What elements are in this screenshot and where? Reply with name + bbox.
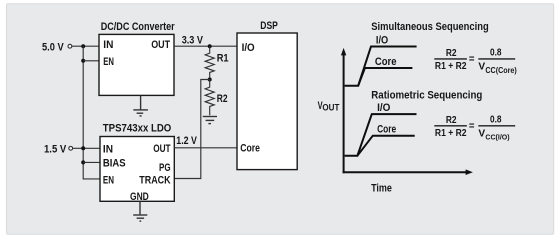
svg-text:I/O: I/O bbox=[242, 42, 255, 54]
svg-text:R1 + R2: R1 + R2 bbox=[435, 127, 467, 139]
svg-text:Core: Core bbox=[375, 56, 397, 68]
junction 3.3V / R1 bbox=[208, 44, 212, 48]
LDO U2 TPS743xx box bbox=[100, 137, 174, 202]
svg-text:DC/DC Converter: DC/DC Converter bbox=[101, 21, 176, 33]
junction R1/R2 divider tap bbox=[208, 78, 212, 82]
junction 1.5V rail bbox=[81, 146, 85, 150]
svg-text:0.8: 0.8 bbox=[490, 46, 502, 58]
ground below LDO bbox=[133, 201, 147, 221]
svg-text:BIAS: BIAS bbox=[103, 157, 126, 169]
svg-text:0.8: 0.8 bbox=[490, 113, 502, 125]
svg-text:EN: EN bbox=[103, 174, 114, 186]
svg-text:DSP: DSP bbox=[260, 20, 278, 32]
wire 5.0V to DC/DC IN bbox=[72, 45, 99, 47]
svg-text:TRACK: TRACK bbox=[139, 175, 170, 187]
svg-text:5.0 V: 5.0 V bbox=[42, 42, 64, 54]
graph axes: VOUT vs Time bbox=[318, 48, 473, 194]
junction BIAS bbox=[81, 160, 85, 164]
svg-text:R2: R2 bbox=[217, 93, 228, 105]
resistor R1 bbox=[205, 46, 214, 79]
wire divider tap to TRACK bbox=[174, 80, 209, 179]
svg-text:CC(Core): CC(Core) bbox=[485, 66, 517, 75]
svg-text:I/O: I/O bbox=[377, 102, 391, 114]
svg-text:1.2 V: 1.2 V bbox=[176, 135, 197, 147]
svg-text:EN: EN bbox=[103, 56, 114, 68]
equation 2: R2/(R1+R2) = 0.8/VCC(I/O) bbox=[434, 113, 515, 141]
DC/DC converter U1 box bbox=[99, 34, 174, 95]
wire 1.5V to LDO IN bbox=[73, 147, 100, 149]
y-axis bbox=[343, 54, 345, 174]
svg-text:R1 + R2: R1 + R2 bbox=[435, 60, 467, 72]
svg-text:IN: IN bbox=[103, 143, 113, 155]
svg-text:V: V bbox=[478, 61, 485, 73]
junction 5.0V/IN bbox=[81, 44, 85, 48]
ground below R2 bbox=[203, 117, 217, 124]
svg-text:R2: R2 bbox=[446, 114, 457, 126]
curve simultaneous I/O bbox=[345, 47, 417, 86]
svg-text:Time: Time bbox=[371, 182, 392, 194]
curve ratiometric I/O bbox=[345, 114, 417, 156]
svg-text:PG: PG bbox=[159, 162, 171, 174]
wire OUT 3.3V to DSP I/O bbox=[174, 45, 237, 47]
junction EN DC/DC bbox=[81, 59, 85, 63]
resistor R2 bbox=[205, 80, 214, 116]
svg-text:Simultaneous Sequencing: Simultaneous Sequencing bbox=[371, 21, 489, 33]
svg-text:V: V bbox=[478, 128, 485, 140]
x-axis bbox=[343, 171, 467, 173]
svg-text:IN: IN bbox=[103, 39, 113, 51]
wire to DC/DC EN bbox=[83, 60, 99, 62]
svg-text:3.3 V: 3.3 V bbox=[182, 35, 204, 47]
wire to LDO BIAS bbox=[83, 161, 100, 163]
node 1.5V input terminal bbox=[44, 144, 73, 156]
svg-text:=: = bbox=[469, 120, 475, 132]
DSP box bbox=[237, 33, 297, 170]
svg-text:Ratiometric Sequencing: Ratiometric Sequencing bbox=[371, 90, 482, 102]
svg-text:1.5 V: 1.5 V bbox=[44, 144, 67, 156]
ground below DC/DC bbox=[133, 95, 148, 116]
svg-text:OUT: OUT bbox=[322, 102, 339, 113]
svg-text:OUT: OUT bbox=[153, 143, 171, 155]
svg-text:Core: Core bbox=[377, 123, 396, 135]
wire LDO OUT 1.2V to DSP Core bbox=[174, 147, 237, 149]
svg-text:Core: Core bbox=[240, 143, 260, 155]
svg-text:R2: R2 bbox=[446, 47, 457, 59]
curve ratiometric Core bbox=[357, 136, 414, 156]
svg-text:R1: R1 bbox=[217, 53, 229, 65]
svg-text:TPS743xx LDO: TPS743xx LDO bbox=[103, 123, 172, 135]
svg-text:CC(I/O): CC(I/O) bbox=[485, 133, 510, 142]
svg-text:I/O: I/O bbox=[376, 34, 389, 46]
equation 1: R2/(R1+R2) = 0.8/VCC(Core) bbox=[434, 46, 517, 74]
svg-text:OUT: OUT bbox=[151, 39, 170, 51]
node 5.0V input terminal bbox=[42, 42, 72, 54]
curve simultaneous Core bbox=[358, 68, 412, 86]
wire vertical 5.0V rail down to LDO EN bbox=[83, 46, 100, 179]
svg-text:=: = bbox=[469, 53, 475, 65]
